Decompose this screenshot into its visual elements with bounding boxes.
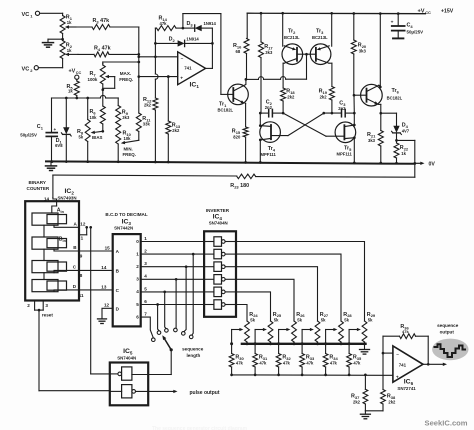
- potentiometer R27 5k: [315, 312, 329, 344]
- svg-text:1k: 1k: [401, 151, 406, 156]
- 0V arrow: [415, 162, 436, 168]
- resistor R17 3k3: [259, 13, 274, 57]
- svg-text:R23 180: R23 180: [230, 183, 249, 189]
- svg-text:BINARY: BINARY: [29, 180, 46, 185]
- wire R1 wiper: [65, 25, 76, 28]
- wire R26 wiper: [277, 328, 290, 354]
- wire op-amp output to feedback: [206, 28, 214, 68]
- svg-text:47k: 47k: [306, 360, 314, 365]
- svg-text:Tr3: Tr3: [316, 29, 324, 35]
- IC5 SN7404N box: [110, 348, 148, 405]
- svg-text:–: –: [181, 56, 184, 61]
- svg-text:5: 5: [144, 286, 147, 291]
- wire IC3 out 4 to IC4: [141, 291, 204, 294]
- transistor Tr3 BC213L: [310, 29, 331, 65]
- svg-text:7: 7: [144, 312, 147, 317]
- wire IC4 out row 2 to R28: [236, 254, 341, 321]
- wire IC2 pin 1 loop: [79, 226, 88, 240]
- wire IC3 out 3 to IC4: [141, 278, 204, 281]
- svg-text:SN7442N: SN7442N: [114, 226, 133, 231]
- switch contact 6: [189, 335, 193, 339]
- svg-text:BIAS: BIAS: [92, 135, 103, 140]
- svg-text:SN72741: SN72741: [397, 386, 416, 391]
- resistor R14 47k: [155, 16, 184, 31]
- wire IC3 pin 12 D to ground: [102, 302, 113, 318]
- svg-text:+: +: [180, 76, 183, 81]
- svg-text:Ain: Ain: [57, 208, 65, 214]
- wire R7 wiper loop: [101, 75, 114, 91]
- capacitor C4 50u/25V: [391, 14, 424, 39]
- wire R17 down to C2 node: [260, 58, 262, 114]
- potentiometer R28 5k: [339, 312, 353, 344]
- svg-text:15: 15: [105, 246, 111, 251]
- wire VC1 to R1: [40, 13, 63, 15]
- terminal +Vcc (mid-left): [69, 69, 82, 80]
- svg-text:100k: 100k: [88, 77, 98, 82]
- terminal VC2: [22, 66, 39, 73]
- svg-text:2: 2: [136, 264, 139, 269]
- svg-text:3k3: 3k3: [359, 48, 367, 53]
- svg-text:6: 6: [136, 314, 139, 319]
- svg-text:B.C.D TO DECIMAL: B.C.D TO DECIMAL: [105, 212, 147, 217]
- IC5 inverter gate 2: [110, 385, 136, 398]
- diode D2 1N914: [155, 37, 212, 47]
- potentiometer R1 1k: [60, 15, 73, 34]
- wire bias rail: [52, 95, 119, 99]
- svg-text:50μ/25V: 50μ/25V: [407, 30, 424, 35]
- label inverter IC4: [206, 208, 230, 226]
- svg-text:1N914: 1N914: [204, 21, 217, 26]
- wire Tr1 collector to bases node: [245, 78, 248, 84]
- svg-text:MAX.: MAX.: [120, 71, 131, 76]
- wire R37 R38 common: [365, 410, 383, 412]
- svg-text:A: A: [74, 222, 78, 227]
- svg-text:10k: 10k: [90, 115, 98, 120]
- FET Tr5 MPF111: [326, 122, 356, 157]
- label binary counter: [27, 180, 50, 191]
- resistor R5 1k: [67, 79, 80, 95]
- wire inverting input row: [139, 55, 178, 58]
- svg-text:Bin: Bin: [59, 237, 67, 243]
- wire R4 to node: [109, 53, 140, 56]
- svg-text:CC: CC: [425, 10, 431, 15]
- svg-text:Tr2: Tr2: [288, 29, 296, 35]
- wire IC3 out 1 to IC4: [141, 253, 204, 256]
- resistor R15 820: [232, 127, 248, 162]
- svg-text:D: D: [116, 306, 120, 311]
- wire Tr4 source to bus: [259, 140, 261, 162]
- svg-text:741: 741: [184, 65, 192, 70]
- +Vcc rail: [247, 12, 425, 39]
- svg-text:–: –: [396, 353, 399, 358]
- svg-text:C4: C4: [407, 23, 414, 29]
- wire IC4 out row 5 to R25: [236, 292, 271, 321]
- svg-text:IC2: IC2: [65, 188, 75, 195]
- wire feedback to output: [427, 336, 430, 365]
- svg-text:3k3: 3k3: [368, 138, 376, 143]
- wire IC2 reset pins 2 3: [27, 301, 53, 318]
- svg-text:2k2: 2k2: [144, 103, 152, 108]
- switch contact 4: [174, 328, 178, 332]
- svg-text:INVERTER: INVERTER: [206, 208, 230, 213]
- switch contact 5: [182, 332, 186, 336]
- svg-text:Tr6: Tr6: [392, 88, 400, 94]
- svg-text:3: 3: [136, 277, 139, 282]
- svg-text:5k: 5k: [344, 317, 349, 322]
- svg-text:BC213L: BC213L: [284, 35, 300, 40]
- svg-text:B: B: [73, 245, 77, 250]
- svg-text:2: 2: [27, 303, 30, 308]
- svg-text:47k: 47k: [353, 360, 361, 365]
- wire tap row4 to contact 3: [165, 292, 167, 329]
- switch wiper arm: [162, 335, 172, 351]
- resistor R19 2k2: [319, 87, 335, 115]
- IC2 flip-flop stage 1: [32, 208, 67, 226]
- svg-text:COUNTER: COUNTER: [27, 186, 50, 191]
- svg-text:IC5: IC5: [123, 348, 133, 355]
- wire Tr3 emitter to rail: [331, 13, 333, 46]
- wire IC2 A to IC5: [89, 226, 109, 374]
- resistor R35 47k: [347, 354, 362, 377]
- IC3 output digits: [136, 239, 139, 320]
- IC3 SN7442N box: [113, 219, 141, 327]
- svg-text:SeekIC.com: SeekIC.com: [425, 419, 468, 428]
- potentiometer R10 10k MIN FREQ: [116, 124, 132, 162]
- svg-text:47k: 47k: [330, 360, 338, 365]
- wire Tr2 collector to R18: [283, 63, 284, 88]
- IC2 flip-flop stage 3: [32, 261, 67, 273]
- svg-text:12: 12: [80, 222, 86, 227]
- IC4 inverter gate 3: [204, 262, 236, 272]
- wire Tr6 emitter node: [378, 104, 396, 114]
- watermark: [425, 419, 468, 428]
- wire IC3 out 0 to IC4: [141, 241, 204, 243]
- caption remnant: [152, 426, 248, 430]
- wire cross-coupling C3 to Tr4 gate: [288, 112, 325, 136]
- IC4 SN7404N box: [204, 231, 236, 316]
- summing wire to IC6: [232, 374, 393, 377]
- svg-text:5: 5: [136, 302, 139, 307]
- svg-text:1: 1: [81, 235, 84, 240]
- wire IC2 output A pin 12: [54, 222, 86, 228]
- capacitor C2 2n2: [259, 100, 283, 117]
- svg-text:VC: VC: [22, 67, 30, 73]
- svg-text:47k: 47k: [259, 360, 267, 365]
- svg-text:FREQ.: FREQ.: [119, 77, 133, 82]
- svg-text:R4 47k: R4 47k: [94, 46, 111, 52]
- svg-text:+: +: [391, 20, 394, 25]
- wire cross-coupling C2 to Tr5 gate: [283, 113, 326, 136]
- switch contact 3: [165, 329, 169, 333]
- transistor Tr1 BC182L: [218, 84, 249, 112]
- svg-text:reset: reset: [42, 313, 53, 318]
- svg-text:10k: 10k: [124, 136, 132, 141]
- wire Tr6 collector to rail: [379, 14, 382, 89]
- zener diode D4 4V7: [392, 113, 410, 142]
- svg-text:D: D: [73, 284, 77, 289]
- svg-text:5k: 5k: [79, 135, 84, 140]
- resistor R32 47k: [276, 354, 291, 377]
- wire IC3 out 6 to switch: [141, 317, 154, 338]
- ground (bar): [360, 344, 370, 354]
- wire tap row3 to contact 4: [175, 279, 177, 328]
- ground (R37): [360, 411, 370, 419]
- svg-text:+15V: +15V: [441, 8, 454, 14]
- wire R2 wiper: [65, 53, 78, 56]
- svg-text:4: 4: [144, 274, 147, 279]
- wire R25 wiper: [254, 328, 267, 354]
- svg-text:A: A: [116, 249, 120, 254]
- svg-text:47k: 47k: [236, 360, 244, 365]
- svg-text:sequence: sequence: [182, 346, 204, 351]
- svg-text:FREQ.: FREQ.: [123, 152, 136, 157]
- svg-text:BC213L: BC213L: [312, 35, 328, 40]
- wire Tr1 emitter: [244, 103, 246, 127]
- svg-text:1k: 1k: [67, 20, 72, 25]
- svg-text:BC182L: BC182L: [218, 108, 234, 113]
- wire Tr1 base: [221, 93, 228, 95]
- svg-text:1: 1: [30, 14, 33, 19]
- IC3 input labels: [116, 249, 120, 311]
- wire R29 wiper: [348, 328, 361, 354]
- svg-text:2: 2: [144, 249, 147, 254]
- resistor R31 47k: [253, 354, 268, 377]
- wire Tr4 drain: [259, 113, 261, 126]
- svg-text:741: 741: [399, 362, 407, 367]
- resistor R22 1k: [394, 140, 409, 163]
- resistor R4 47k: [78, 46, 111, 57]
- potentiometer R25 5k: [268, 312, 282, 344]
- resistor R21 3k3: [367, 113, 383, 163]
- svg-text:0: 0: [136, 239, 139, 244]
- wire feedback loop top: [183, 14, 221, 95]
- capacitor C3 2n2: [324, 101, 356, 117]
- wire bases line: [246, 54, 307, 79]
- svg-text:1: 1: [136, 251, 139, 256]
- svg-text:5k: 5k: [250, 317, 255, 322]
- svg-text:length: length: [187, 353, 201, 358]
- resistor R23 180 line: [53, 174, 415, 189]
- wire R23 to IC2 pin 14: [53, 175, 57, 201]
- svg-text:R3 47k: R3 47k: [93, 18, 110, 24]
- potentiometer R24 5k: [245, 312, 259, 344]
- svg-text:C: C: [73, 264, 77, 269]
- resistor R20 3k3: [351, 14, 367, 96]
- ground (IC3 D input): [98, 319, 107, 324]
- op-amp IC1 741: [178, 52, 206, 89]
- svg-text:33k: 33k: [143, 122, 151, 127]
- svg-text:11: 11: [79, 293, 84, 298]
- wire Tr6 base node: [353, 94, 361, 113]
- svg-text:SN7404N: SN7404N: [209, 221, 228, 226]
- potentiometer R2 1k: [60, 41, 73, 59]
- svg-text:47k: 47k: [402, 329, 409, 334]
- svg-text:SN7404N: SN7404N: [117, 356, 136, 361]
- wire R24 wiper: [230, 328, 243, 354]
- label BCD to decimal: [105, 212, 147, 217]
- svg-text:4V7: 4V7: [402, 129, 410, 134]
- 0V bus: [46, 160, 415, 164]
- svg-text:5k: 5k: [368, 317, 373, 322]
- potentiometer R29 5k: [362, 312, 376, 344]
- wire R10 wiper: [121, 140, 139, 157]
- transistor Tr2 BC213L: [282, 29, 303, 65]
- svg-text:+V: +V: [418, 8, 425, 14]
- svg-text:14: 14: [44, 197, 50, 202]
- wire tap row5 to contact 2: [158, 305, 159, 331]
- waveform blob: [432, 339, 468, 361]
- wire pulse output: [136, 390, 220, 396]
- IC4 inverter gate 5: [204, 287, 236, 297]
- wire IC4 out row 6 to R24: [236, 305, 247, 322]
- wire IC2 output B pin 9: [54, 245, 113, 259]
- wire R7 top to node column: [103, 61, 140, 64]
- svg-text:6: 6: [144, 299, 147, 304]
- svg-text:820: 820: [233, 135, 241, 140]
- wire Tr5 source to bus: [353, 138, 355, 162]
- svg-text:1k: 1k: [67, 48, 72, 53]
- IC3 output pin numbers: [144, 236, 147, 317]
- wire Tr3 collector to R19: [329, 63, 332, 86]
- label MAX FREQ: [119, 71, 133, 82]
- ground (0V bus): [46, 162, 57, 171]
- svg-text:4: 4: [136, 289, 139, 294]
- label sequence length: [182, 346, 204, 358]
- svg-text:output: output: [440, 329, 455, 334]
- potentiometer R8 5k BIAS: [77, 98, 90, 162]
- wire IC3 out 5 to IC4: [141, 303, 204, 306]
- IC4 inverter gate 6: [204, 300, 236, 310]
- wire feedback node column: [154, 28, 158, 98]
- switch contact 1: [152, 338, 156, 342]
- wire feedback column: [382, 336, 384, 389]
- svg-text:2k2: 2k2: [172, 128, 180, 133]
- svg-text:3k3: 3k3: [122, 115, 130, 120]
- wire stage cascade: [43, 225, 45, 279]
- svg-text:+: +: [396, 376, 399, 381]
- svg-text:9: 9: [80, 254, 83, 259]
- wire R1-R2 junction to ground: [48, 34, 64, 43]
- wire Ain input: [52, 201, 57, 213]
- svg-text:50μ/25V: 50μ/25V: [20, 132, 37, 137]
- resistor R36 47k: [383, 324, 428, 339]
- wire IC3 out 2 to IC4: [141, 265, 204, 268]
- svg-text:2: 2: [30, 68, 33, 73]
- label +Vcc +15V: [418, 8, 454, 15]
- wire IC2 output D pin 11: [54, 284, 113, 298]
- svg-text:47k: 47k: [283, 360, 291, 365]
- wire R28 wiper: [324, 328, 337, 354]
- wire IC6 inverting input: [382, 352, 393, 355]
- IC4 inverter gate 4: [204, 275, 236, 285]
- common bar: [242, 342, 366, 345]
- wire IC4 out row 4 to R26: [236, 279, 294, 321]
- svg-text:3: 3: [45, 303, 48, 308]
- switch contact 2: [157, 331, 161, 335]
- diode D3 1N914: [183, 21, 217, 31]
- op-amp IC6 741 SN72741: [393, 346, 423, 391]
- wire Tr5 drain column: [353, 113, 355, 125]
- FET Tr4 MPF111: [259, 122, 288, 157]
- svg-text:8: 8: [80, 273, 83, 278]
- resistor R3 47k: [76, 18, 110, 30]
- svg-text:2k2: 2k2: [320, 95, 328, 100]
- wire IC2 output C pin 8: [54, 264, 113, 278]
- terminal VC1: [22, 11, 40, 18]
- svg-text:C1: C1: [37, 124, 44, 130]
- ground (VC divider): [43, 43, 54, 48]
- wire D4 to 0V corner: [397, 140, 417, 177]
- resistor R16 68: [233, 39, 249, 80]
- svg-text:14: 14: [101, 265, 107, 270]
- wire IC6 output arrow: [423, 363, 447, 366]
- resistor R12 2k2: [143, 97, 158, 162]
- svg-text:sequence: sequence: [437, 323, 459, 328]
- resistor R38 2k2: [381, 390, 396, 411]
- node column R3/R4: [137, 27, 140, 113]
- svg-text:0V: 0V: [429, 162, 436, 168]
- potentiometer R26 5k: [292, 312, 306, 344]
- IC2 flip-flop stage 4: [32, 280, 67, 292]
- svg-text:2n2: 2n2: [265, 105, 273, 110]
- svg-text:MPF111: MPF111: [261, 152, 277, 157]
- resistor R6 10k: [90, 90, 106, 131]
- wire wiper to IC5: [132, 350, 171, 375]
- wire non-inverting input row: [139, 75, 178, 78]
- wire R3 to node: [110, 26, 139, 28]
- svg-text:B: B: [116, 268, 120, 273]
- svg-text:2n2: 2n2: [338, 106, 346, 111]
- wire IC4 out row 3 to R27: [236, 267, 318, 321]
- IC5 inverter gate 1: [110, 367, 132, 380]
- svg-text:1N914: 1N914: [186, 37, 199, 42]
- svg-text:1k: 1k: [68, 89, 73, 94]
- resistor R30 47k: [229, 354, 244, 377]
- resistor R34 47k: [323, 354, 338, 377]
- svg-text:2k2: 2k2: [388, 400, 396, 405]
- svg-text:SN7493N: SN7493N: [58, 196, 77, 201]
- resistor R11 33k: [136, 113, 151, 140]
- svg-text:BC182L: BC182L: [387, 96, 403, 101]
- zener diode D1 6V8: [55, 98, 71, 162]
- wire tap row1 to contact 6: [192, 254, 193, 335]
- IC4 inverter gate 1: [204, 237, 236, 247]
- resistor R33 47k: [300, 354, 315, 377]
- svg-text:68: 68: [236, 49, 241, 54]
- wire R27 wiper: [301, 328, 314, 354]
- svg-text:13: 13: [101, 284, 107, 289]
- resistor R9 3k3: [116, 98, 130, 124]
- potentiometer R7 100k MAX FREQ: [88, 64, 106, 91]
- IC2 flip-flop stage 2: [32, 237, 67, 250]
- svg-text:MIN.: MIN.: [124, 147, 133, 152]
- svg-text:CC: CC: [76, 71, 82, 75]
- resistor R18 2k2: [281, 88, 296, 114]
- svg-text:2k2: 2k2: [353, 400, 361, 405]
- svg-text:D3: D3: [187, 21, 194, 27]
- resistor R37 2k2: [351, 375, 368, 411]
- wire R2 to VC2: [38, 59, 62, 68]
- svg-text:12: 12: [104, 302, 110, 307]
- wire IC4 out row 1 to R29: [236, 242, 365, 322]
- wire Tr2 emitter to rail: [282, 13, 284, 46]
- IC2 SN7493N box: [25, 188, 79, 301]
- svg-text:C: C: [116, 288, 120, 293]
- wire IC1 inputs: [167, 75, 170, 78]
- svg-text:2k2: 2k2: [287, 95, 295, 100]
- resistor R13 2k2: [166, 77, 181, 162]
- svg-text:The sequence generator circuit: The sequence generator circuit diagram: [152, 426, 248, 430]
